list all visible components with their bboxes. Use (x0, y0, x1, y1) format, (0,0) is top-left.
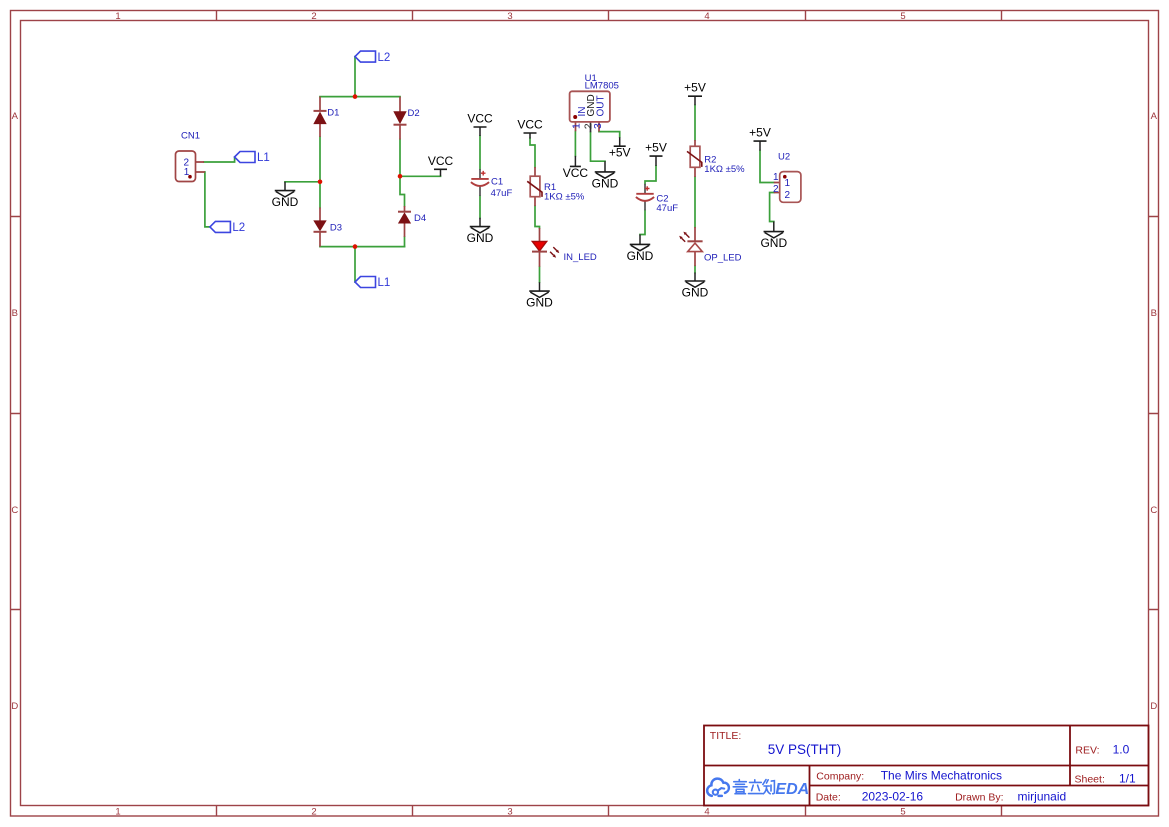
svg-text:2023-02-16: 2023-02-16 (862, 790, 924, 804)
svg-text:+5V: +5V (645, 141, 667, 155)
svg-text:GND: GND (682, 286, 709, 300)
svg-text:5V PS(THT): 5V PS(THT) (768, 742, 842, 757)
svg-text:Company:: Company: (816, 771, 864, 783)
svg-text:1KΩ ±5%: 1KΩ ±5% (544, 191, 585, 202)
svg-text:D2: D2 (408, 108, 420, 119)
svg-text:mirjunaid: mirjunaid (1018, 790, 1067, 804)
svg-text:GND: GND (592, 176, 619, 190)
svg-text:3: 3 (592, 123, 604, 129)
svg-text:1: 1 (184, 167, 190, 178)
svg-text:Drawn By:: Drawn By: (955, 792, 1003, 804)
svg-text:1: 1 (785, 178, 791, 189)
svg-text:C: C (1150, 505, 1157, 516)
svg-text:+5V: +5V (749, 126, 771, 140)
svg-text:VCC: VCC (467, 112, 493, 126)
svg-text:1: 1 (773, 172, 779, 183)
svg-text:TITLE:: TITLE: (710, 730, 742, 742)
svg-text:OUT: OUT (596, 95, 607, 116)
svg-text:D3: D3 (330, 223, 342, 234)
svg-text:1: 1 (115, 11, 120, 22)
svg-text:VCC: VCC (563, 166, 589, 180)
svg-text:A: A (1151, 111, 1158, 122)
svg-text:B: B (12, 308, 18, 319)
svg-text:47uF: 47uF (491, 188, 513, 199)
svg-text:2: 2 (773, 184, 779, 195)
svg-text:5: 5 (900, 11, 905, 22)
svg-text:The Mirs Mechatronics: The Mirs Mechatronics (881, 769, 1002, 783)
svg-text:GND: GND (526, 296, 553, 310)
svg-text:2: 2 (311, 11, 316, 22)
svg-text:+5V: +5V (609, 146, 631, 160)
svg-text:L2: L2 (378, 52, 391, 64)
svg-text:LM7805: LM7805 (585, 81, 619, 92)
svg-text:GND: GND (760, 236, 787, 250)
svg-text:4: 4 (704, 11, 709, 22)
svg-text:1/1: 1/1 (1119, 772, 1136, 786)
svg-text:Date:: Date: (816, 791, 841, 803)
svg-text:EDA: EDA (775, 781, 809, 798)
svg-text:GND: GND (627, 249, 654, 263)
svg-text:D1: D1 (327, 107, 339, 118)
svg-text:1.0: 1.0 (1113, 743, 1130, 757)
svg-text:2: 2 (785, 190, 791, 201)
svg-text:VCC: VCC (428, 154, 454, 168)
svg-text:5: 5 (900, 806, 905, 817)
svg-text:D4: D4 (414, 213, 426, 224)
svg-text:IN_LED: IN_LED (564, 252, 597, 263)
svg-text:1KΩ ±5%: 1KΩ ±5% (704, 164, 745, 175)
svg-text:+5V: +5V (684, 81, 706, 95)
svg-text:3: 3 (507, 806, 512, 817)
svg-text:4: 4 (704, 806, 709, 817)
svg-text:C: C (11, 505, 18, 516)
svg-text:D: D (11, 701, 18, 712)
svg-text:Sheet:: Sheet: (1075, 774, 1105, 786)
svg-text:L1: L1 (257, 152, 270, 164)
svg-text:B: B (1151, 308, 1157, 319)
svg-text:L1: L1 (378, 277, 391, 289)
svg-text:OP_LED: OP_LED (704, 253, 742, 264)
svg-text:3: 3 (507, 11, 512, 22)
svg-text:VCC: VCC (517, 118, 543, 132)
svg-text:GND: GND (272, 195, 299, 209)
svg-text:47uF: 47uF (656, 203, 678, 214)
svg-text:1: 1 (115, 806, 120, 817)
svg-text:REV:: REV: (1075, 745, 1099, 757)
svg-text:A: A (12, 111, 19, 122)
svg-text:L2: L2 (232, 222, 245, 234)
svg-text:CN1: CN1 (181, 131, 200, 142)
svg-text:U2: U2 (778, 152, 790, 163)
svg-text:C1: C1 (491, 177, 503, 188)
svg-text:D: D (1150, 701, 1157, 712)
svg-text:1: 1 (570, 123, 582, 129)
svg-text:2: 2 (311, 806, 316, 817)
svg-text:GND: GND (467, 231, 494, 245)
